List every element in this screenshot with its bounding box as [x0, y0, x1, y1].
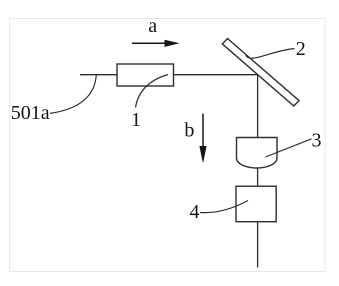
svg-text:1: 1	[131, 109, 141, 131]
svg-text:2: 2	[296, 38, 306, 60]
svg-text:501a: 501a	[11, 102, 50, 124]
svg-text:3: 3	[312, 129, 322, 151]
svg-text:b: b	[184, 120, 194, 142]
svg-text:a: a	[148, 15, 157, 37]
svg-text:4: 4	[190, 201, 200, 223]
